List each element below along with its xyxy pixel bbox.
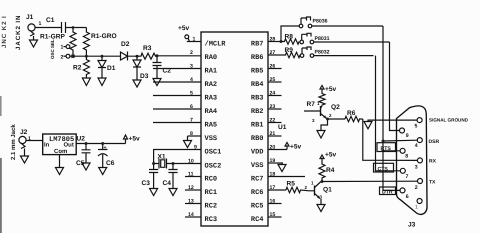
resistor R7 — [319, 92, 325, 106]
pin 6 RA4 — [153, 108, 201, 110]
resistor R6 — [345, 116, 363, 121]
svg-text:VSS: VSS — [205, 135, 218, 143]
transistor Q1 — [314, 186, 316, 196]
wire P8032 output — [314, 55, 374, 57]
ground under J1 — [30, 36, 38, 47]
node dot C5 — [85, 142, 88, 145]
capacitor C3 — [149, 164, 158, 189]
node dot Q1 collector — [321, 180, 324, 183]
pin 7 RA5 — [153, 122, 201, 124]
capacitor C4 — [168, 164, 177, 189]
net label box CTS — [374, 163, 394, 172]
microcontroller U1 body — [201, 32, 268, 226]
svg-text:Q2: Q2 — [331, 104, 340, 111]
wire R6 down and right to DB9 pin3 — [363, 119, 418, 160]
svg-text:2: 2 — [190, 50, 193, 56]
svg-text:15: 15 — [270, 212, 276, 218]
net label box DTR — [380, 187, 396, 195]
svg-text:3: 3 — [415, 164, 418, 170]
svg-text:DSR: DSR — [429, 139, 440, 145]
svg-text:23: 23 — [270, 104, 276, 110]
wire P8036 output — [312, 25, 383, 27]
node dot D3 top — [136, 55, 139, 58]
svg-text:RA5: RA5 — [205, 122, 218, 130]
capacitor C1 — [62, 22, 66, 33]
svg-text:13: 13 — [188, 199, 194, 205]
resistor R4 — [319, 162, 325, 182]
pin 8 circle — [400, 148, 405, 153]
svg-text:RC7: RC7 — [251, 176, 264, 184]
svg-text:1: 1 — [61, 45, 64, 51]
svg-text:11: 11 — [188, 172, 194, 178]
svg-text:25: 25 — [270, 77, 276, 83]
svg-text:R5: R5 — [287, 181, 296, 188]
resistor R5 — [286, 187, 309, 192]
svg-text:RX: RX — [429, 159, 437, 165]
svg-text:8: 8 — [190, 131, 193, 137]
node dot D1 top — [101, 55, 104, 58]
svg-text:Com: Com — [54, 148, 67, 155]
SECTION: db9 — [397, 106, 469, 229]
diode D1 — [98, 56, 106, 78]
svg-text:R1-GRO: R1-GRO — [91, 33, 117, 40]
pin 24 RB3 — [268, 95, 282, 97]
svg-text:P8032: P8032 — [315, 50, 330, 56]
pin 1 /MCLR — [187, 41, 201, 43]
wire header pin2 to node — [70, 55, 73, 57]
svg-text:14: 14 — [188, 212, 194, 218]
svg-text:U2: U2 — [77, 136, 86, 143]
wire Q2 emitter to R6 — [328, 118, 346, 120]
node dot top of R1-GRP — [72, 26, 75, 29]
svg-text:OSC2: OSC2 — [205, 163, 222, 171]
pin 22 RB1 — [268, 122, 282, 124]
svg-text:J2: J2 — [20, 129, 28, 136]
wire Q2 emitter node to ground — [321, 119, 328, 131]
connector J1 jack symbol — [28, 24, 35, 31]
node dot DSR branch — [382, 140, 385, 143]
jumper P8036 — [299, 24, 303, 28]
node dot RB7 branch — [280, 40, 283, 43]
node dot R1-GRO bottom — [85, 55, 88, 58]
svg-text:RA2: RA2 — [205, 81, 218, 89]
svg-text:J3: J3 — [408, 222, 416, 229]
pin 9 circle — [400, 128, 405, 133]
ground under J2 — [21, 149, 29, 164]
svg-text:R2: R2 — [73, 65, 82, 72]
node dot Q2 emitter — [326, 118, 329, 121]
svg-text:5: 5 — [415, 124, 418, 130]
svg-text:2.1 mm Jack: 2.1 mm Jack — [10, 124, 17, 160]
signal ground wire from DB9 pin5 — [368, 120, 417, 121]
svg-text:10: 10 — [188, 159, 194, 165]
svg-text:D3: D3 — [140, 73, 149, 80]
svg-text:12: 12 — [188, 185, 194, 191]
net label box RTS — [377, 143, 396, 152]
ground under Q1 — [317, 205, 325, 212]
node dot C2 top — [156, 54, 159, 57]
wire branch to RTS DB9 pin8 — [383, 150, 400, 152]
node dot C6 — [101, 142, 104, 145]
svg-text:+5v: +5v — [290, 144, 302, 151]
+5v at VDD — [285, 143, 289, 150]
wire R3 to RA0 pin2 — [157, 55, 201, 57]
svg-text:OSC SEL: OSC SEL — [50, 39, 55, 59]
svg-text:P8036: P8036 — [313, 19, 328, 25]
pin 27 RB6 — [268, 54, 285, 56]
svg-text:R4: R4 — [326, 167, 335, 174]
svg-text:3: 3 — [190, 64, 193, 70]
pin 12 RC1 — [185, 189, 201, 191]
capacitor C2 — [153, 56, 162, 79]
svg-text:9: 9 — [406, 133, 409, 139]
svg-text:R3: R3 — [143, 45, 152, 52]
svg-text:C6: C6 — [106, 160, 115, 167]
svg-text:U1: U1 — [278, 124, 287, 131]
pin 3 circle — [417, 158, 422, 163]
wire P8036 down to DTR net — [383, 26, 400, 190]
wire OSC1 pin9 down to crystal row — [154, 150, 201, 164]
svg-text:VSS: VSS — [251, 162, 264, 170]
pin 11 RC0 — [185, 176, 201, 178]
svg-text:2: 2 — [61, 55, 64, 61]
svg-text:In: In — [44, 142, 50, 149]
pin 23 RB2 — [268, 108, 282, 110]
pin 16 RC5 — [268, 203, 282, 205]
connector J3 outline — [397, 106, 428, 215]
wire J1 to C1 — [35, 27, 61, 29]
svg-text:J1: J1 — [26, 14, 34, 21]
pin 28 RB7 — [268, 41, 281, 43]
pin 17 RC6 — [268, 189, 286, 191]
svg-text:JNC K2 I: JNC K2 I — [1, 15, 8, 48]
transistor Q2 — [320, 106, 322, 116]
svg-text:P8031: P8031 — [315, 36, 330, 42]
ground under C5 — [82, 163, 90, 170]
svg-text:9: 9 — [194, 145, 197, 151]
wire J2 to regulator In — [26, 140, 43, 142]
diode D2 (horizontal) — [121, 52, 138, 61]
ground at pin 19 — [278, 163, 286, 172]
svg-text:1: 1 — [28, 136, 31, 142]
wire RB7 up to jumper P8036 — [281, 26, 299, 42]
svg-text:RC0: RC0 — [205, 176, 218, 184]
pin 20 VDD — [268, 149, 287, 151]
svg-text:D1: D1 — [107, 65, 116, 72]
ground under Q2 — [317, 131, 325, 139]
ground under C2 — [153, 79, 161, 86]
scan edge artifact lower — [0, 158, 2, 233]
svg-text:6: 6 — [190, 104, 193, 110]
pin 14 RC3 — [185, 216, 201, 218]
pin 26 RB5 — [268, 68, 282, 70]
svg-text:+5v: +5v — [129, 136, 141, 143]
wire branch to DB9 pin4 DSR — [383, 139, 418, 142]
ground under C3 — [150, 189, 158, 196]
pin 2 circle — [418, 179, 423, 184]
svg-text:C3: C3 — [142, 180, 151, 187]
svg-text:8: 8 — [405, 154, 408, 160]
svg-text:RC6: RC6 — [251, 189, 264, 197]
scan edge artifact upper — [0, 96, 2, 116]
svg-text:RB6: RB6 — [251, 54, 264, 62]
svg-text:4: 4 — [415, 143, 418, 149]
+5v output symbol — [124, 135, 128, 144]
capacitor C5 — [82, 144, 91, 164]
+5v above R7 — [320, 86, 324, 93]
pin 18 RC7 — [268, 176, 305, 178]
svg-text:D2: D2 — [121, 41, 130, 48]
pin 1 circle — [417, 199, 422, 204]
node dot R1-GRP bottom — [71, 55, 74, 58]
ground under regulator Com — [56, 155, 64, 175]
svg-text:+5v: +5v — [325, 86, 337, 93]
SECTION: left AC input network — [0, 14, 201, 233]
svg-text:DTR: DTR — [382, 189, 393, 195]
diode D3 — [133, 56, 141, 80]
svg-text:4: 4 — [190, 77, 193, 83]
ground under C6 — [99, 168, 107, 175]
svg-text:2: 2 — [415, 185, 418, 191]
svg-text:RB2: RB2 — [251, 108, 264, 116]
+5v above R4 — [320, 155, 324, 162]
svg-text:5: 5 — [190, 91, 193, 97]
pin 21 RB0 — [268, 135, 282, 137]
svg-text:RC2: RC2 — [205, 203, 218, 211]
pin 7 circle — [400, 168, 405, 173]
svg-text:21: 21 — [270, 131, 276, 137]
ground on signal ground wire — [364, 122, 372, 129]
svg-text:+5v: +5v — [325, 152, 337, 159]
svg-text:28: 28 — [270, 37, 276, 43]
svg-text:C1: C1 — [46, 17, 55, 24]
ground under D1 — [98, 78, 106, 86]
connector J2 jack symbol — [19, 136, 26, 143]
pin 4 circle — [417, 138, 422, 143]
resistor R9 — [285, 52, 300, 57]
jumper P8032 — [300, 54, 304, 58]
wire P8032 down to CTS net — [376, 56, 401, 171]
svg-text:RB1: RB1 — [251, 122, 264, 130]
svg-text:+: + — [104, 145, 107, 151]
ground under D3 — [133, 80, 141, 87]
svg-text:RC1: RC1 — [205, 189, 218, 197]
pin 4 RA2 — [153, 81, 201, 83]
svg-text:24: 24 — [270, 91, 276, 97]
svg-text:7: 7 — [190, 118, 193, 124]
ground at pin 8 — [184, 136, 192, 148]
svg-text:R7: R7 — [307, 101, 316, 108]
svg-text:RA3: RA3 — [205, 95, 218, 103]
node dot RTS branch — [382, 149, 385, 152]
svg-text:RA1: RA1 — [205, 68, 218, 76]
wire P8031 output — [314, 41, 390, 43]
pin 3 RA1 — [153, 68, 201, 70]
SECTION: chip — [153, 32, 305, 226]
svg-text:27: 27 — [270, 50, 276, 56]
crystal X1 — [159, 159, 173, 169]
jumper P8031 — [300, 40, 304, 44]
svg-text:1: 1 — [193, 37, 196, 43]
pin 25 RB4 — [268, 81, 282, 83]
ground under R2 — [82, 78, 90, 86]
resistor R1-GRO — [83, 28, 89, 57]
wire P8031 down to DB9 pin9 — [390, 42, 400, 131]
node dot C4 top — [172, 162, 175, 165]
svg-text:C4: C4 — [163, 180, 172, 187]
svg-text:CTS: CTS — [378, 166, 389, 172]
pin 15 RC4 — [268, 216, 282, 218]
voltage regulator U2 box — [43, 134, 76, 155]
svg-text:Q1: Q1 — [323, 187, 332, 194]
pin 6 circle — [400, 188, 405, 193]
svg-text:26: 26 — [270, 64, 276, 70]
svg-text:22: 22 — [270, 118, 276, 124]
wire regulator Out to +5v — [76, 143, 125, 145]
svg-text:19: 19 — [270, 158, 276, 164]
svg-text:Out: Out — [64, 142, 74, 149]
wire node row y56 — [73, 55, 121, 57]
svg-text:RB3: RB3 — [251, 95, 264, 103]
svg-text:/MCLR: /MCLR — [205, 40, 227, 49]
pin 8 VSS — [188, 135, 202, 137]
wire D2 to R3 — [137, 55, 140, 57]
resistor R3 — [140, 53, 158, 59]
svg-text:RB0: RB0 — [251, 135, 264, 143]
resistor R1-GRP — [70, 28, 76, 57]
svg-text:20: 20 — [270, 145, 276, 151]
SECTION: right network — [280, 17, 418, 212]
svg-text:RC4: RC4 — [251, 216, 264, 224]
node dot C3 top — [152, 162, 155, 165]
svg-text:1: 1 — [39, 21, 42, 27]
svg-text:RTS: RTS — [381, 146, 392, 152]
pin 5 RA3 — [153, 95, 201, 97]
svg-text:RA0: RA0 — [205, 54, 218, 62]
svg-text:RB4: RB4 — [251, 81, 264, 89]
pin 5 circle — [417, 118, 422, 123]
pin 19 VSS — [268, 162, 283, 164]
svg-text:RA4: RA4 — [205, 108, 218, 116]
ground under C4 — [169, 189, 177, 196]
resistor R8 — [281, 39, 299, 44]
wire Q1 collector to DB9 pin2 TX — [322, 180, 418, 182]
svg-text:SIGNAL GROUND: SIGNAL GROUND — [429, 118, 469, 123]
svg-text:RC3: RC3 — [205, 216, 218, 224]
svg-text:6: 6 — [406, 194, 409, 200]
svg-text:18: 18 — [270, 172, 276, 178]
pin 13 RC2 — [185, 203, 201, 205]
svg-text:JACK2 IN: JACK2 IN — [15, 15, 22, 50]
capacitor C6 polarized — [98, 144, 108, 168]
svg-text:16: 16 — [270, 199, 276, 205]
svg-text:RB7: RB7 — [251, 41, 264, 49]
svg-text:TX: TX — [429, 179, 436, 185]
wire C1 to resistors top — [66, 27, 87, 29]
svg-text:RB5: RB5 — [251, 68, 264, 76]
wire Q1 emitter to ground — [320, 199, 322, 205]
svg-text:1: 1 — [415, 205, 418, 211]
svg-text:17: 17 — [270, 185, 276, 191]
svg-text:+5v: +5v — [178, 25, 190, 32]
svg-text:OSC1: OSC1 — [205, 149, 222, 157]
wire crystal to OSC2 pin10 — [173, 163, 201, 165]
svg-text:RC5: RC5 — [251, 203, 264, 211]
svg-text:7: 7 — [406, 174, 409, 180]
svg-text:VDD: VDD — [251, 149, 264, 157]
resistor R2 — [83, 56, 89, 78]
